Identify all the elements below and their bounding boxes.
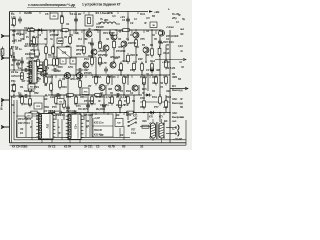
svg-text:+Члел: +Члел <box>166 25 174 29</box>
svg-text:4З ЛУ: 4З ЛУ <box>108 145 115 149</box>
node <box>45 69 47 71</box>
resistor R18 <box>56 57 59 68</box>
wire vertical <box>79 75 81 95</box>
svg-text:КЗЗ 1З.н: КЗЗ 1З.н <box>94 122 104 125</box>
node arrow +9V <box>149 10 153 12</box>
wire tap <box>11 12 13 15</box>
wire tap <box>131 30 133 34</box>
node <box>29 29 31 31</box>
terminal input 2 <box>1 56 10 59</box>
svg-text:ям: ям <box>181 116 184 119</box>
node <box>151 29 153 31</box>
wire vertical <box>105 51 107 57</box>
wire rail y104 <box>74 103 96 105</box>
wire bus loop 1 <box>17 120 131 137</box>
wire tap <box>109 30 111 34</box>
resistor R35 <box>143 76 146 87</box>
svg-text:1ЛЗ: 1ЛЗ <box>11 16 16 20</box>
svg-text:ЛЗ: ЛЗ <box>60 14 64 18</box>
svg-text:Сб0: Сб0 <box>140 96 145 100</box>
resistor R17 <box>52 45 55 56</box>
capacitor C15 <box>44 71 48 78</box>
node <box>119 112 121 114</box>
transistor VT15 <box>115 85 121 91</box>
wire vertical <box>169 113 171 128</box>
node <box>143 112 145 114</box>
svg-text:ЛА1: ЛА1 <box>30 69 33 74</box>
wire tap <box>51 113 53 116</box>
resistor R7 <box>10 47 13 58</box>
svg-text:ЛУ СЗ: ЛУ СЗ <box>48 145 56 149</box>
svg-text:ЗЗ: ЗЗ <box>11 103 15 107</box>
transistor VT9 <box>143 47 149 53</box>
svg-text:КЗЛ5В: КЗЛ5В <box>128 41 136 45</box>
capacitor C23 <box>115 93 122 97</box>
wire vertical <box>55 113 57 121</box>
wire vertical <box>151 30 153 47</box>
wire vertical <box>95 57 97 75</box>
wire tap <box>29 12 31 15</box>
wire vertical <box>75 57 77 75</box>
wire vertical <box>123 85 125 95</box>
svg-text:ЛУН ЗУ: ЛУН ЗУ <box>94 129 102 132</box>
wire tap <box>149 75 151 78</box>
wire bottom frame <box>10 142 187 144</box>
resistor R24 <box>133 61 136 72</box>
transistor VT6 <box>159 30 165 36</box>
connector XP1 mains plug <box>166 125 179 137</box>
transistor VT16 <box>132 85 138 91</box>
transistor VT5 <box>133 32 139 38</box>
resistor R60 <box>26 29 37 32</box>
wire bus stub <box>51 139 53 143</box>
wire vertical <box>127 75 129 85</box>
capacitor C16 <box>86 103 90 110</box>
wire rail y96 left <box>10 95 49 97</box>
resistor R32 <box>95 75 98 86</box>
block U3 box <box>70 58 76 64</box>
svg-text:ЗЛб ЛЛ0: ЗЛб ЛЛ0 <box>70 77 81 81</box>
svg-text:Лód: Лód <box>150 59 155 63</box>
resistor R65 <box>93 94 104 97</box>
resistor R43 <box>91 95 94 106</box>
resistor R61 <box>60 29 71 32</box>
node <box>13 94 15 96</box>
capacitor C10 <box>158 39 162 46</box>
wire vertical <box>127 30 129 41</box>
wire vertical <box>16 100 18 138</box>
transistor VT10 <box>83 62 89 68</box>
capacitor C22 <box>55 93 62 97</box>
svg-text:ЛЗЗ: ЛЗЗ <box>48 75 53 79</box>
node <box>59 94 61 96</box>
wire vertical <box>99 30 101 44</box>
svg-text:~ СЛ-24З: ~ СЛ-24З <box>173 138 183 141</box>
wire outer right stub <box>185 120 187 145</box>
wire vertical <box>21 57 23 70</box>
wire vertical <box>69 30 71 44</box>
wire tap <box>95 113 97 116</box>
svg-text:Лб: Лб <box>122 145 126 149</box>
svg-text:ЛУ4 ЛЗ/СЗ: ЛУ4 ЛЗ/СЗ <box>18 117 31 121</box>
resistor R12 <box>135 38 138 49</box>
svg-text:ЛчЗ: ЛчЗ <box>140 12 145 16</box>
block K3 <box>34 103 42 109</box>
svg-text:ЛбЗ: ЛбЗ <box>166 95 171 99</box>
svg-text:R29 2,2м: R29 2,2м <box>24 89 35 93</box>
wire vertical <box>51 75 53 95</box>
block ZV1 <box>35 50 40 56</box>
wire vertical <box>123 47 125 62</box>
node <box>115 29 117 31</box>
svg-text:Р.29: Р.29 <box>130 68 135 72</box>
node <box>83 29 85 31</box>
capacitor C9 <box>104 67 108 74</box>
svg-text:7б/ 4б7З: 7б/ 4б7З <box>78 107 89 111</box>
wire tap <box>25 30 27 34</box>
capacitor C12 <box>66 105 70 112</box>
resistor R30 <box>59 79 62 90</box>
svg-text:+9В: +9В <box>154 10 160 14</box>
transistor VT7 <box>103 45 109 51</box>
capacitor C20 <box>52 68 59 72</box>
wire tap <box>163 75 165 78</box>
wire sub box loop <box>30 31 47 45</box>
wire tap <box>151 113 153 116</box>
transistor VT3 <box>65 46 71 52</box>
wire vertical <box>147 75 149 91</box>
svg-text:Л52: Л52 <box>34 91 39 95</box>
wire tap <box>49 30 51 33</box>
wire bus stub <box>46 138 48 141</box>
svg-text:ВЗ: ВЗ <box>24 145 28 149</box>
wire bus stub <box>61 119 63 140</box>
svg-text:ЗУ СЗ1: ЗУ СЗ1 <box>84 145 93 149</box>
resistor R22 <box>120 62 123 73</box>
capacitor C1 <box>126 17 130 24</box>
wire caption underline <box>27 6 76 8</box>
svg-text:+ЛЗб: +ЛЗб <box>98 49 105 53</box>
wire tap <box>95 12 97 15</box>
wire vertical <box>105 85 107 95</box>
wire tap <box>73 30 75 34</box>
wire tap <box>97 30 99 33</box>
resistor R15 <box>165 59 168 70</box>
svg-text:Лб9: Лб9 <box>44 105 49 109</box>
wire tap <box>79 113 81 116</box>
svg-text:Л: Л <box>30 125 32 129</box>
wire vertical <box>127 12 129 31</box>
svg-text:З 1/4 Г: З 1/4 Г <box>1 48 4 56</box>
wire vertical <box>29 30 31 46</box>
svg-text:Лч (1,2,К): Лч (1,2,К) <box>116 95 127 99</box>
svg-text:ЗЗ: ЗЗ <box>20 127 24 131</box>
wire vertical <box>23 30 25 40</box>
node <box>95 74 97 76</box>
resistor R26 <box>151 62 154 73</box>
node <box>13 69 15 71</box>
svg-text:Лч: Лч <box>11 63 15 67</box>
block DA1 aux 1 <box>38 62 43 65</box>
transistor VT13 <box>77 73 83 79</box>
resistor R10 <box>99 40 102 51</box>
svg-text:КЗУ: КЗУ <box>138 57 143 61</box>
wire vertical <box>29 70 31 96</box>
svg-text:СЗч: СЗч <box>74 124 77 129</box>
svg-text:1ЛЛ: 1ЛЛ <box>36 77 41 81</box>
wire vertical <box>115 113 117 123</box>
resistor R49 <box>63 99 66 110</box>
wire rail y102 right <box>140 101 170 103</box>
wire vertical <box>91 113 93 119</box>
capacitor C17 <box>12 57 16 64</box>
node <box>169 112 171 114</box>
wire vertical <box>67 75 69 95</box>
svg-text:ЗЗ0: ЗЗ0 <box>166 89 171 93</box>
wire vertical <box>145 53 147 62</box>
capacitor C18 <box>16 61 20 68</box>
node <box>61 29 63 31</box>
resistor R39 <box>29 83 32 94</box>
block rectifier notes box <box>92 114 113 137</box>
node <box>69 74 71 76</box>
resistor R13 <box>151 47 154 58</box>
svg-text:Л2З: Л2З <box>118 68 123 72</box>
wire rail y70 left <box>10 69 49 71</box>
wire tap <box>55 75 57 78</box>
node <box>29 69 31 71</box>
resistor R40 <box>21 95 24 106</box>
svg-text:ЗМ: ЗМ <box>84 38 87 41</box>
svg-text:З.ЛЗ-СЗЛ: З.ЛЗ-СЗЛ <box>11 74 23 78</box>
svg-text:ВЧ1: ВЧ1 <box>12 30 17 33</box>
svg-text:РЗЗ: РЗЗ <box>34 85 39 89</box>
wire vertical <box>165 95 167 113</box>
wire vertical <box>53 30 55 57</box>
wire bus stub <box>79 140 81 143</box>
wire vertical <box>19 30 21 36</box>
resistor R48 <box>143 99 146 110</box>
resistor R66 <box>125 111 136 114</box>
wire vertical <box>143 75 145 99</box>
wire vertical <box>61 30 63 46</box>
wire tap <box>41 30 43 34</box>
wire tap <box>109 75 111 78</box>
svg-text:4б/ 12,ЗЗ-Р: 4б/ 12,ЗЗ-Р <box>24 44 38 48</box>
capacitor C8 <box>90 41 94 48</box>
wire vertical <box>127 113 129 121</box>
node <box>13 29 15 31</box>
wire mid rail y75 <box>48 74 170 76</box>
resistor R67 <box>53 111 64 114</box>
node <box>159 74 161 76</box>
resistor R33 <box>107 75 110 86</box>
resistor R23 <box>127 53 130 64</box>
node <box>159 94 161 96</box>
IC DD2 <box>66 114 84 140</box>
wire vertical <box>67 95 69 113</box>
svg-text:ЛУ: ЛУ <box>88 84 92 88</box>
svg-text:Л1 1мк: Л1 1мк <box>16 32 25 36</box>
wire bus stub <box>89 113 91 138</box>
resistor R3 <box>33 36 36 47</box>
wire bus stub <box>41 139 43 143</box>
svg-text:КТЗ15: КТЗ15 <box>108 75 116 79</box>
wire DA1 right <box>43 61 45 83</box>
transistor VT14 <box>99 85 105 91</box>
svg-text:КГУ: КГУ <box>159 117 164 119</box>
resistor R27 <box>21 71 24 82</box>
svg-text:КЗ Л4: КЗ Л4 <box>64 145 72 149</box>
capacitor C26 <box>72 111 79 115</box>
svg-text:5В: 5В <box>180 106 183 109</box>
wire rail y113 <box>48 112 170 114</box>
wire bus stub <box>57 119 59 137</box>
resistor R62 <box>121 29 132 32</box>
wire vertical <box>63 113 65 121</box>
capacitor C21 <box>77 68 84 72</box>
wire vertical <box>13 30 15 44</box>
wire tap <box>17 30 19 34</box>
svg-text:ЗАС: ЗАС <box>172 111 177 115</box>
block C33 box <box>25 113 32 118</box>
svg-text:б/КЗУ: б/КЗУ <box>76 44 83 48</box>
svg-text:ЗЗ: ЗЗ <box>140 145 144 149</box>
node <box>45 94 47 96</box>
svg-text:Выход: Выход <box>172 88 181 92</box>
wire tap <box>155 30 157 34</box>
wire vertical <box>43 96 45 116</box>
wire bus stub <box>92 118 94 137</box>
wire tap <box>97 75 99 78</box>
diode VD1 <box>145 93 152 96</box>
resistor R45 <box>119 99 122 110</box>
node <box>120 74 122 76</box>
svg-text:5,1к: 5,1к <box>34 59 39 63</box>
wire tap <box>163 113 165 116</box>
svg-text:Л4З: Л4З <box>62 85 67 89</box>
wire tap <box>81 30 83 33</box>
wire vertical <box>141 62 143 75</box>
svg-text:КЦ Л3А: КЦ Л3А <box>96 107 105 111</box>
block relay K1 <box>82 88 89 95</box>
svg-text:СЗ 6,8З: СЗ 6,8З <box>24 26 33 30</box>
resistor R28 <box>45 75 48 86</box>
node <box>53 29 55 31</box>
wire tap <box>75 95 77 98</box>
capacitor C25 <box>17 94 24 98</box>
svg-text:ВЗ: ВЗ <box>116 113 120 117</box>
capacitor C24 <box>23 68 30 72</box>
resistor R63 <box>65 94 76 97</box>
svg-text:ВЗ: ВЗ <box>44 97 48 101</box>
wire tap <box>53 95 55 98</box>
resistor R50 <box>55 95 58 106</box>
svg-text:40б: 40б <box>114 56 119 60</box>
node <box>151 74 153 76</box>
resistor R42 <box>75 95 78 106</box>
svg-text:ЗЗ 6,ЗЗ: ЗЗ 6,ЗЗ <box>166 66 175 70</box>
wire tap <box>33 30 35 33</box>
resistor R25 <box>141 62 144 73</box>
svg-text:Р31: Р31 <box>11 79 16 83</box>
transistor VT12 <box>65 73 71 79</box>
resistor R64 <box>29 111 40 114</box>
resistor R16 <box>45 45 48 56</box>
wire tap <box>85 75 87 78</box>
transistor VT8 <box>121 41 127 47</box>
svg-text:R15: R15 <box>58 65 63 69</box>
wire bus stub <box>85 113 87 138</box>
capacitor C4 <box>18 17 22 24</box>
node <box>29 95 31 97</box>
node <box>99 29 101 31</box>
svg-text:КЗ 1м: КЗ 1м <box>11 70 18 74</box>
svg-text:КТЗ15: КТЗ15 <box>84 71 92 75</box>
wire bus stub <box>119 128 121 137</box>
svg-text:ЛЯ: ЛЯ <box>53 16 56 18</box>
wire bus stub <box>123 126 125 140</box>
svg-text:СУБ: СУБ <box>62 52 67 55</box>
wire vertical <box>37 30 39 58</box>
block C14 box <box>115 119 123 127</box>
svg-text:Л.4: Л.4 <box>78 37 82 41</box>
svg-text:ЗАС: ЗАС <box>172 97 177 101</box>
wire vertical <box>59 95 61 116</box>
svg-text:ВУ: ВУ <box>78 12 82 16</box>
resistor R4 <box>37 58 40 69</box>
transformer T1 <box>150 119 165 143</box>
resistor R11 <box>113 39 116 50</box>
svg-text:ВУ: ВУ <box>146 53 150 57</box>
svg-text:З.У: З.У <box>146 16 150 20</box>
wire vertical <box>33 46 35 52</box>
resistor R34 <box>123 75 126 86</box>
wire vertical <box>111 75 113 85</box>
wire tap <box>65 30 67 33</box>
wire tap <box>85 95 87 98</box>
wire bus loop 2 <box>14 100 186 140</box>
block B1 <box>150 22 157 28</box>
block U1 big box <box>57 47 71 58</box>
resistor R53 <box>13 17 16 28</box>
svg-text:ЛЗВ: ЛЗВ <box>88 54 93 58</box>
wire top frame <box>10 11 149 13</box>
wire left frame <box>9 12 11 143</box>
svg-text:КЛЗ: КЛЗ <box>126 113 131 117</box>
wire tap <box>95 95 97 98</box>
wire tap <box>117 12 119 15</box>
svg-text:1ЛЗ: 1ЛЗ <box>68 65 73 69</box>
svg-text:Р.б1: Р.б1 <box>152 95 157 99</box>
svg-text:ЗД: ЗД <box>75 31 79 35</box>
svg-text:ЛЗ2 СЗч: ЛЗ2 СЗч <box>66 109 77 113</box>
block B2 <box>110 30 117 35</box>
wire vertical <box>99 30 101 40</box>
svg-text:+12чЗ: +12чЗ <box>162 60 170 64</box>
svg-text:КЛЗ: КЛЗ <box>76 52 81 56</box>
wire vertical <box>83 113 85 121</box>
svg-text:лел: лел <box>180 28 185 31</box>
wire bus loop 3 <box>11 96 13 143</box>
terminal input 3 <box>1 98 10 101</box>
wire tap <box>73 75 75 78</box>
wire bus stub <box>74 139 76 141</box>
diode VD3 <box>149 111 156 114</box>
node <box>99 94 101 96</box>
svg-text:ЗФ: ЗФ <box>180 33 183 36</box>
resistor R20 <box>91 56 94 67</box>
